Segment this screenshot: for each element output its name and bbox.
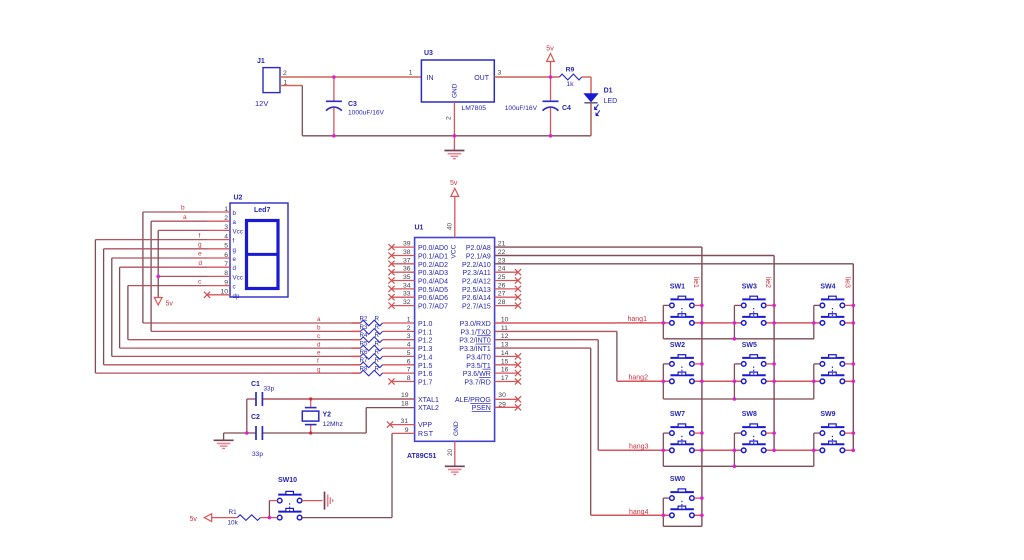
svg-text:3: 3: [407, 333, 411, 340]
svg-text:SW10: SW10: [278, 477, 297, 484]
svg-text:C4: C4: [562, 105, 571, 112]
svg-text:1k: 1k: [566, 81, 574, 88]
svg-text:R1: R1: [229, 509, 238, 516]
svg-text:P0.5/AD5: P0.5/AD5: [418, 287, 448, 294]
svg-text:36: 36: [403, 266, 411, 273]
svg-text:R: R: [375, 315, 380, 322]
svg-text:R: R: [375, 341, 380, 348]
svg-text:lie3: lie3: [843, 277, 850, 288]
svg-text:R9: R9: [566, 67, 575, 74]
svg-text:R: R: [375, 332, 380, 339]
svg-text:lie2: lie2: [764, 277, 771, 288]
svg-text:J1: J1: [257, 58, 265, 65]
svg-text:SW3: SW3: [742, 283, 757, 290]
svg-text:C3: C3: [348, 101, 357, 108]
svg-text:hang1: hang1: [628, 316, 648, 323]
svg-text:b: b: [181, 205, 185, 212]
svg-text:2: 2: [283, 70, 287, 77]
svg-text:2: 2: [407, 325, 411, 332]
svg-text:5v: 5v: [190, 516, 198, 523]
svg-text:a: a: [233, 219, 237, 226]
svg-text:P1.5: P1.5: [418, 363, 433, 370]
svg-text:P1.2: P1.2: [418, 338, 433, 345]
svg-text:5v: 5v: [546, 46, 554, 53]
svg-text:R8: R8: [360, 366, 368, 373]
svg-text:P0.2/AD2: P0.2/AD2: [418, 262, 448, 269]
svg-text:P3.3/INT1: P3.3/INT1: [459, 346, 491, 353]
svg-text:37: 37: [403, 257, 411, 264]
svg-text:P0.3/AD3: P0.3/AD3: [418, 270, 448, 277]
svg-text:SW8: SW8: [742, 411, 757, 418]
svg-text:19: 19: [401, 392, 409, 399]
svg-text:SW4: SW4: [820, 283, 835, 290]
svg-text:e: e: [233, 256, 237, 263]
svg-text:P2.7/A15: P2.7/A15: [462, 304, 491, 311]
svg-text:P3.4/T0: P3.4/T0: [466, 354, 491, 361]
svg-text:VPP: VPP: [418, 422, 432, 429]
svg-text:SW9: SW9: [820, 411, 835, 418]
svg-text:P1.4: P1.4: [418, 354, 433, 361]
svg-text:R: R: [375, 324, 380, 331]
svg-text:U3: U3: [424, 50, 433, 57]
svg-text:P2.1/A9: P2.1/A9: [466, 254, 491, 261]
svg-text:e: e: [317, 350, 321, 357]
svg-text:SW1: SW1: [670, 283, 685, 290]
svg-text:a: a: [317, 316, 321, 323]
svg-text:SW5: SW5: [742, 342, 757, 349]
svg-text:20: 20: [447, 448, 454, 456]
svg-text:18: 18: [401, 401, 409, 408]
svg-text:R4: R4: [360, 332, 368, 339]
svg-text:GND: GND: [453, 421, 460, 436]
svg-text:c: c: [317, 333, 320, 340]
svg-text:P2.6/A14: P2.6/A14: [462, 295, 491, 302]
svg-text:P3.0/RXD: P3.0/RXD: [460, 321, 491, 328]
svg-text:P2.3/A11: P2.3/A11: [463, 270, 491, 277]
svg-text:R7: R7: [360, 357, 368, 364]
svg-text:38: 38: [403, 249, 411, 256]
svg-text:8: 8: [407, 375, 411, 382]
svg-text:40: 40: [447, 222, 454, 230]
svg-text:2: 2: [446, 116, 453, 120]
svg-text:5: 5: [407, 350, 411, 357]
svg-text:OUT: OUT: [474, 75, 490, 82]
svg-text:5v: 5v: [166, 301, 174, 308]
svg-text:P3.2/INT0: P3.2/INT0: [459, 338, 491, 345]
svg-text:C1: C1: [251, 381, 260, 388]
svg-text:34: 34: [403, 282, 411, 289]
svg-text:a: a: [183, 214, 187, 221]
svg-text:P0.6/AD6: P0.6/AD6: [418, 295, 448, 302]
svg-text:g: g: [317, 366, 321, 373]
svg-text:Led7: Led7: [254, 207, 270, 214]
svg-text:SW0: SW0: [670, 476, 685, 483]
svg-text:AT89C51: AT89C51: [407, 453, 437, 460]
svg-text:39: 39: [403, 241, 411, 248]
svg-text:PSEN: PSEN: [472, 405, 491, 412]
svg-text:hang4: hang4: [629, 509, 649, 516]
svg-text:33p: 33p: [252, 451, 263, 458]
svg-text:31: 31: [400, 418, 408, 425]
svg-text:IN: IN: [427, 75, 434, 82]
svg-text:XTAL1: XTAL1: [418, 397, 439, 404]
svg-text:P0.4/AD4: P0.4/AD4: [418, 279, 448, 286]
svg-text:R6: R6: [360, 349, 368, 356]
svg-text:g: g: [198, 242, 202, 249]
svg-text:Y2: Y2: [323, 412, 332, 419]
svg-text:P3.6/WR: P3.6/WR: [463, 371, 491, 378]
svg-text:Vcc: Vcc: [233, 228, 243, 235]
svg-text:c: c: [233, 284, 236, 291]
svg-text:5v: 5v: [450, 180, 458, 187]
svg-text:C2: C2: [251, 414, 260, 421]
svg-text:d: d: [233, 265, 237, 272]
svg-text:30: 30: [498, 392, 506, 399]
svg-text:d: d: [199, 260, 203, 267]
svg-text:f: f: [233, 238, 235, 245]
svg-text:3: 3: [498, 70, 502, 77]
svg-text:R: R: [375, 349, 380, 356]
svg-text:R: R: [375, 357, 380, 364]
svg-text:4: 4: [407, 342, 411, 349]
svg-text:RST: RST: [418, 431, 434, 438]
svg-text:dp: dp: [233, 293, 240, 300]
svg-text:7: 7: [407, 367, 411, 374]
svg-text:Vcc: Vcc: [233, 274, 243, 281]
svg-text:SW2: SW2: [670, 342, 685, 349]
svg-text:R5: R5: [360, 341, 368, 348]
svg-text:P3.5/T1: P3.5/T1: [466, 363, 491, 370]
svg-text:P2.2/A10: P2.2/A10: [462, 262, 491, 269]
svg-text:f: f: [317, 358, 319, 365]
svg-text:LED: LED: [604, 98, 618, 105]
svg-text:XTAL2: XTAL2: [418, 405, 439, 412]
svg-text:33: 33: [403, 291, 411, 298]
svg-text:SW7: SW7: [670, 411, 685, 418]
svg-text:f: f: [199, 233, 201, 240]
svg-text:P2.0/A8: P2.0/A8: [466, 245, 491, 252]
svg-text:b: b: [317, 325, 321, 332]
svg-text:hang3: hang3: [629, 444, 649, 451]
svg-text:P0.1/AD1: P0.1/AD1: [418, 254, 448, 261]
svg-text:33p: 33p: [264, 386, 275, 393]
svg-text:P0.7/AD7: P0.7/AD7: [418, 304, 448, 311]
svg-text:12Mhz: 12Mhz: [323, 421, 344, 428]
svg-text:1: 1: [407, 317, 411, 324]
svg-text:P1.3: P1.3: [418, 346, 433, 353]
svg-text:GND: GND: [452, 83, 459, 98]
svg-text:1000uF/16V: 1000uF/16V: [348, 110, 385, 117]
svg-text:P1.0: P1.0: [418, 321, 433, 328]
svg-text:hang2: hang2: [629, 375, 649, 382]
svg-text:35: 35: [403, 274, 411, 281]
svg-text:lie1: lie1: [692, 277, 699, 288]
svg-text:100uF/16V: 100uF/16V: [505, 105, 538, 112]
svg-text:P1.7: P1.7: [418, 380, 433, 387]
svg-text:10k: 10k: [228, 520, 239, 527]
svg-text:P1.1: P1.1: [418, 329, 433, 336]
svg-text:LM7805: LM7805: [461, 105, 486, 112]
svg-text:VCC: VCC: [451, 244, 458, 258]
svg-text:P1.6: P1.6: [418, 371, 433, 378]
svg-text:D1: D1: [604, 88, 613, 95]
svg-text:P3.1/TXD: P3.1/TXD: [460, 329, 490, 336]
svg-text:b: b: [233, 210, 237, 217]
svg-text:R: R: [375, 366, 380, 373]
svg-text:6: 6: [407, 358, 411, 365]
svg-text:R3: R3: [360, 324, 368, 331]
svg-text:g: g: [233, 247, 237, 254]
svg-text:e: e: [198, 251, 202, 258]
svg-text:ALE/PROG: ALE/PROG: [455, 397, 491, 404]
svg-text:R2: R2: [360, 315, 368, 322]
svg-text:d: d: [317, 341, 321, 348]
svg-text:U1: U1: [415, 225, 424, 232]
svg-text:12V: 12V: [255, 99, 268, 108]
svg-text:32: 32: [403, 299, 411, 306]
svg-text:P3.7/RD: P3.7/RD: [464, 380, 490, 387]
svg-text:U2: U2: [234, 195, 243, 202]
svg-text:P0.0/AD0: P0.0/AD0: [418, 245, 448, 252]
svg-text:P2.4/A12: P2.4/A12: [462, 279, 491, 286]
svg-text:P2.5/A13: P2.5/A13: [462, 287, 491, 294]
svg-text:1: 1: [409, 70, 413, 77]
